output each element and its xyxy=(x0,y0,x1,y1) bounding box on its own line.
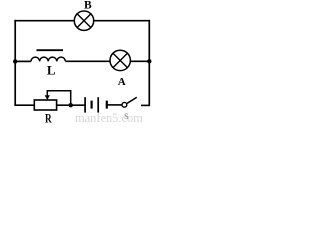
wire lamp A to right node xyxy=(130,60,149,62)
inductor L coil xyxy=(31,57,65,61)
battery cell2 long plate xyxy=(97,97,99,112)
svg-text:L: L xyxy=(47,63,56,78)
battery cell1 short plate xyxy=(90,101,92,109)
battery cell1 long plate xyxy=(84,97,86,112)
wire right bus xyxy=(148,20,150,106)
switch S lever xyxy=(127,97,137,103)
rheostat R body xyxy=(34,100,56,110)
svg-text:manfen5.com: manfen5.com xyxy=(75,111,143,124)
wire top-left (to lamp B) xyxy=(14,20,74,22)
battery cell2 short plate xyxy=(106,101,108,109)
inductor L core bar xyxy=(37,49,64,51)
node right junction xyxy=(147,59,151,63)
rheostat wiper arrow xyxy=(45,91,71,105)
switch S fixed contact wire xyxy=(141,104,150,106)
wire bottom-left (to rheostat) xyxy=(14,104,34,106)
lamp B xyxy=(74,11,93,30)
switch S pivot xyxy=(122,102,127,107)
wire rheostat to battery xyxy=(57,104,86,106)
svg-text:R: R xyxy=(45,111,52,124)
svg-text:S: S xyxy=(124,111,129,121)
wire top-right (lamp B to right bus) xyxy=(94,20,150,22)
wire middle-right (coil to lamp A) xyxy=(65,60,110,62)
wire middle-left (node to coil) xyxy=(15,60,31,62)
wire battery to pivot xyxy=(107,104,122,106)
svg-text:B: B xyxy=(84,0,92,12)
node left junction xyxy=(13,59,17,63)
wire left bus xyxy=(14,20,16,105)
svg-text:A: A xyxy=(118,76,126,88)
lamp A xyxy=(110,50,130,70)
node wiper junction xyxy=(69,103,73,107)
